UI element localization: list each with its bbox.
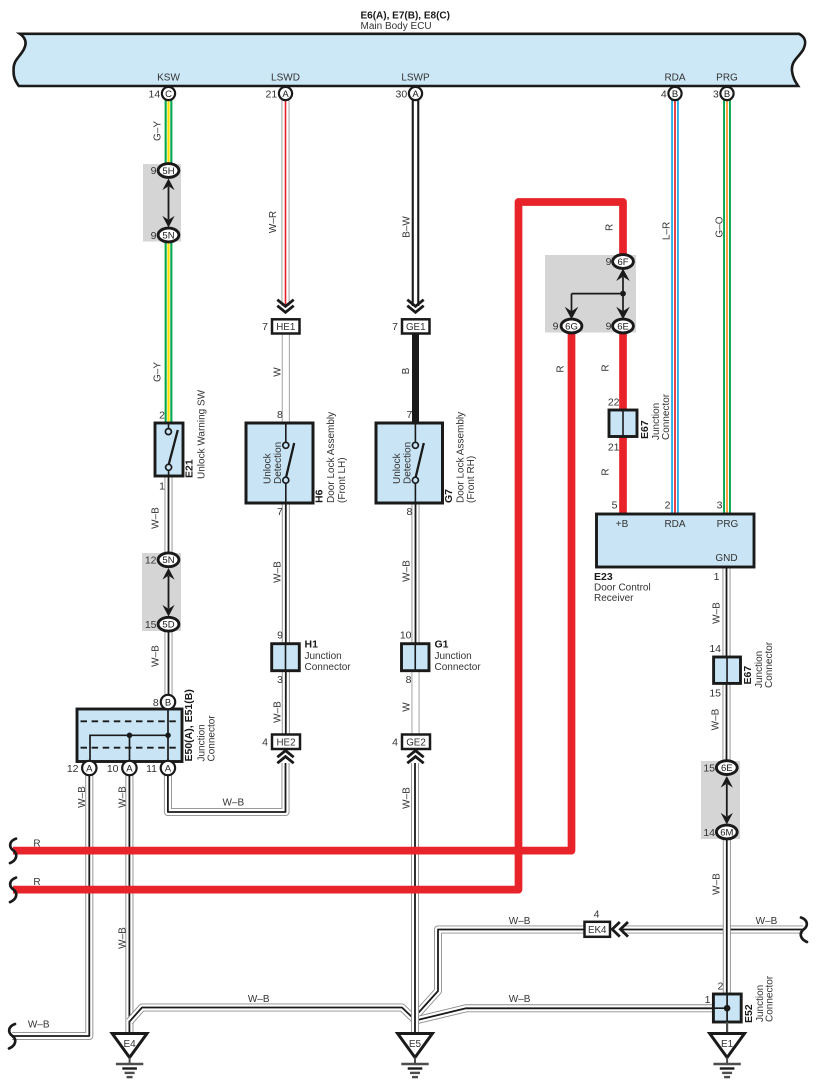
svg-text:W–B: W–B <box>150 645 161 667</box>
svg-text:7: 7 <box>392 321 398 333</box>
svg-text:L–R: L–R <box>662 222 673 240</box>
wire W-B from connector 6M to junction E52 <box>723 838 731 995</box>
svg-text:GND: GND <box>715 553 737 564</box>
internal wiring between 6F, 6G and 6E <box>572 277 624 312</box>
door lock assembly G7 (front RH) with unlock detection switch <box>376 423 443 503</box>
svg-text:5: 5 <box>612 500 618 512</box>
svg-text:A: A <box>282 89 289 100</box>
wire W-B from E50 pin 11 to connector HE2 <box>168 763 286 812</box>
wire from E52 to ground E1 <box>726 1022 728 1034</box>
svg-text:E23: E23 <box>594 571 613 583</box>
svg-text:4: 4 <box>661 88 667 100</box>
pin B of RDA <box>668 87 681 100</box>
svg-text:PRG: PRG <box>717 519 739 530</box>
wire W-B from H6 to junction H1 <box>282 503 290 644</box>
svg-text:3: 3 <box>277 674 283 686</box>
svg-text:1: 1 <box>159 481 165 493</box>
pin A of LSWD <box>279 87 292 100</box>
svg-text:W–B: W–B <box>712 873 723 895</box>
svg-text:Door Lock Assembly: Door Lock Assembly <box>326 412 337 503</box>
svg-text:G1: G1 <box>435 639 449 651</box>
wire G-Y from KSW pin C to connector 5H <box>165 100 173 165</box>
svg-text:3: 3 <box>717 500 723 512</box>
junction dot between 6F and 6E <box>620 291 626 297</box>
svg-text:Detection: Detection <box>273 442 284 484</box>
svg-text:9: 9 <box>151 165 157 177</box>
svg-text:Connector: Connector <box>435 662 482 673</box>
svg-text:W–B: W–B <box>711 708 722 730</box>
pin A11 of E50 <box>161 761 175 775</box>
svg-text:G–O: G–O <box>715 216 726 237</box>
svg-text:E5: E5 <box>409 1039 422 1050</box>
svg-text:E6(A), E7(B), E8(C): E6(A), E7(B), E8(C) <box>361 11 450 22</box>
gray connector box 6E/6M <box>701 761 740 839</box>
svg-text:1: 1 <box>714 571 720 583</box>
svg-text:E67: E67 <box>639 420 651 439</box>
pin A12 of E50 <box>82 761 96 775</box>
break mark red wire upper <box>10 839 16 864</box>
svg-text:W–B: W–B <box>150 507 161 529</box>
junction connector G1 <box>402 644 430 671</box>
svg-text:W–B: W–B <box>509 916 531 927</box>
junction connector E52 <box>713 994 741 1022</box>
wire W-B from EK4 chevrons to right break <box>622 926 804 934</box>
svg-text:Unlock Warning SW: Unlock Warning SW <box>197 389 208 479</box>
svg-text:21: 21 <box>266 88 278 100</box>
connector arrows into GE1 <box>407 300 423 313</box>
svg-text:Connector: Connector <box>764 641 775 688</box>
svg-text:8: 8 <box>277 409 283 421</box>
gray connector box 6F/6G/6E <box>545 255 636 333</box>
svg-text:Connector: Connector <box>207 715 218 762</box>
svg-text:H1: H1 <box>305 639 319 651</box>
svg-text:Door Control: Door Control <box>594 583 651 594</box>
svg-text:W–B: W–B <box>401 560 412 582</box>
break mark W-B wire bottom left <box>9 1024 15 1049</box>
svg-text:9: 9 <box>606 321 612 333</box>
Main Body ECU band E6/E7/E8 <box>14 34 806 86</box>
connector arrows into HE2 <box>277 751 293 764</box>
svg-text:Junction: Junction <box>305 651 342 662</box>
svg-text:2: 2 <box>717 980 723 992</box>
connector 6M <box>716 825 737 839</box>
svg-text:6M: 6M <box>720 827 733 838</box>
door control receiver E23 <box>597 514 755 567</box>
svg-text:G7: G7 <box>443 489 455 503</box>
connector 6E <box>613 319 634 333</box>
pin B of PRG <box>720 87 733 100</box>
svg-text:4: 4 <box>392 736 398 748</box>
svg-text:6E: 6E <box>721 763 733 774</box>
svg-text:14: 14 <box>709 643 721 655</box>
svg-text:Door Lock Assembly: Door Lock Assembly <box>455 412 466 503</box>
svg-text:G–Y: G–Y <box>152 362 163 382</box>
svg-text:W: W <box>401 702 412 712</box>
svg-text:12: 12 <box>67 763 79 775</box>
svg-text:11: 11 <box>146 763 157 775</box>
connector 5N top <box>158 228 179 242</box>
svg-text:10: 10 <box>107 763 119 775</box>
svg-text:B: B <box>165 697 171 708</box>
svg-text:2: 2 <box>665 500 671 512</box>
wire W-B from connector 5D to junction E50 pin 8 <box>165 630 173 696</box>
svg-text:15: 15 <box>145 619 157 631</box>
svg-text:W–B: W–B <box>509 994 531 1005</box>
svg-text:9: 9 <box>277 629 283 641</box>
svg-text:A: A <box>86 763 93 774</box>
svg-text:4: 4 <box>262 736 268 748</box>
arrow into 6E <box>616 307 630 319</box>
svg-text:E1: E1 <box>721 1039 734 1050</box>
svg-text:W–B: W–B <box>248 994 270 1005</box>
svg-text:7: 7 <box>262 321 268 333</box>
arrow into 6F <box>616 269 630 281</box>
wire W-B from GE2 to ground E5 <box>411 763 419 1034</box>
connector 5N lower <box>158 553 179 567</box>
svg-text:GE2: GE2 <box>406 737 426 748</box>
svg-text:Receiver: Receiver <box>594 593 634 604</box>
svg-text:Connector: Connector <box>765 975 776 1022</box>
gray connector box 5N/5D <box>142 553 181 631</box>
svg-text:+B: +B <box>616 519 629 530</box>
svg-text:R: R <box>556 365 567 372</box>
svg-text:12: 12 <box>145 555 157 567</box>
double arrow between 6E and 6M <box>721 776 733 825</box>
door lock assembly H6 (front LH) with unlock detection switch <box>246 423 313 503</box>
svg-text:LSWP: LSWP <box>401 73 430 84</box>
wire R from connector 6E to E23 +B via junction E67 <box>619 332 627 514</box>
svg-text:W–B: W–B <box>712 602 723 624</box>
svg-text:W–B: W–B <box>118 786 129 808</box>
svg-text:7: 7 <box>407 409 413 421</box>
junction connector E50(A),E51(B) <box>77 709 182 762</box>
wire W-B from H1 to connector HE2 <box>282 671 290 735</box>
pin A of LSWP <box>409 87 422 100</box>
svg-text:HE1: HE1 <box>276 322 295 333</box>
wire W-B from EK4 branch corner to E5 <box>416 930 585 1017</box>
svg-text:6G: 6G <box>565 321 578 332</box>
svg-text:3: 3 <box>713 88 719 100</box>
svg-text:Main Body ECU: Main Body ECU <box>361 21 432 32</box>
svg-text:W–B: W–B <box>273 561 284 583</box>
connector 6E lower <box>716 761 737 775</box>
svg-text:Connector: Connector <box>305 662 352 673</box>
svg-text:KSW: KSW <box>157 73 180 84</box>
svg-text:PRG: PRG <box>716 73 738 84</box>
svg-text:RDA: RDA <box>664 519 685 530</box>
wire W-B from E50 pin 10 to ground E4 <box>125 775 133 1034</box>
pin A10 of E50 <box>122 761 136 775</box>
svg-text:B–W: B–W <box>402 216 413 238</box>
wire L-R from RDA pin B to receiver E23 <box>671 100 679 514</box>
wire W from G1 to connector GE2 <box>412 671 420 735</box>
svg-text:15: 15 <box>703 763 715 775</box>
svg-text:7: 7 <box>277 506 283 518</box>
svg-text:15: 15 <box>709 687 721 699</box>
connector GE2 <box>402 735 430 750</box>
connector arrows into EK4 <box>612 922 628 937</box>
svg-text:9: 9 <box>151 230 157 242</box>
svg-text:W: W <box>273 367 284 377</box>
wire W-B from E50 pin 12 to left break <box>12 775 89 1036</box>
svg-text:W–B: W–B <box>273 701 284 723</box>
svg-text:C: C <box>165 89 172 100</box>
svg-text:HE2: HE2 <box>276 737 295 748</box>
svg-text:22: 22 <box>608 396 620 408</box>
connector HE1 <box>272 319 300 333</box>
wire W-B from E67 to connector 6E <box>723 683 731 762</box>
junction connector E67 lower <box>714 657 741 683</box>
connector GE1 <box>402 319 430 333</box>
wire W-B from G7 to junction G1 <box>412 503 420 644</box>
svg-text:E4: E4 <box>123 1039 136 1050</box>
wire R from connector 6G to left break <box>13 332 572 851</box>
ground E1 <box>710 1034 745 1078</box>
svg-text:A: A <box>412 89 419 100</box>
svg-text:EK4: EK4 <box>588 925 607 936</box>
svg-text:(Front LH): (Front LH) <box>337 457 348 503</box>
unlock warning switch E21 <box>155 423 183 476</box>
svg-text:4: 4 <box>594 909 600 921</box>
svg-text:LSWD: LSWD <box>271 73 300 84</box>
gray connector box 5H/5N <box>143 164 181 242</box>
svg-text:10: 10 <box>400 629 412 641</box>
svg-text:9: 9 <box>553 321 559 333</box>
svg-text:RDA: RDA <box>664 73 685 84</box>
wire G-Y from connector 5N to switch E21 <box>165 240 173 423</box>
svg-text:8: 8 <box>153 697 159 709</box>
svg-text:W–R: W–R <box>268 211 279 233</box>
svg-text:2: 2 <box>159 410 165 422</box>
svg-text:E50(A), E51(B): E50(A), E51(B) <box>183 689 195 761</box>
svg-text:A: A <box>165 763 172 774</box>
pin C of KSW <box>162 87 175 100</box>
svg-text:21: 21 <box>608 441 620 453</box>
svg-text:5H: 5H <box>162 166 174 177</box>
connector arrows into GE2 <box>407 751 423 764</box>
wire W-B bus E4 to E5 <box>130 1008 415 1022</box>
svg-text:6F: 6F <box>617 257 628 268</box>
wire W-B bus E5 to E52 pin 1 <box>418 1008 714 1020</box>
connector 5H <box>158 164 179 178</box>
wire R from left break through U-loop to connector 6F <box>13 202 623 890</box>
wire G-O from PRG pin B to receiver E23 <box>723 100 731 514</box>
svg-text:Detection: Detection <box>402 442 413 484</box>
svg-text:14: 14 <box>703 827 715 839</box>
svg-text:H6: H6 <box>314 489 326 503</box>
svg-text:9: 9 <box>606 256 612 268</box>
connector 6G <box>561 319 582 333</box>
svg-text:6E: 6E <box>617 321 629 332</box>
svg-text:R: R <box>33 877 40 888</box>
svg-text:W–B: W–B <box>28 1020 50 1031</box>
svg-text:5D: 5D <box>162 620 174 631</box>
svg-text:R: R <box>605 224 616 231</box>
wire W-B from E23 GND to junction E67 <box>723 567 731 658</box>
double arrow between 5N and 5D <box>162 568 174 617</box>
svg-text:(Front RH): (Front RH) <box>466 456 477 503</box>
connector arrows into HE1 <box>277 300 293 313</box>
wire B from GE1 to door lock G7 <box>412 333 419 423</box>
double arrow between 5H and 5N <box>162 179 174 228</box>
svg-text:R: R <box>601 468 612 475</box>
svg-text:14: 14 <box>149 88 161 100</box>
svg-text:B: B <box>724 89 730 100</box>
svg-text:1: 1 <box>705 994 711 1006</box>
ground E5 <box>398 1034 433 1078</box>
svg-text:Connector: Connector <box>661 393 672 440</box>
connector HE2 <box>272 735 300 750</box>
svg-text:5N: 5N <box>162 555 174 566</box>
ground E4 <box>112 1034 147 1078</box>
svg-text:R: R <box>33 838 40 849</box>
svg-text:B: B <box>672 89 678 100</box>
wire B-W from LSWP pin A to connector GE1 <box>412 100 420 306</box>
svg-text:W–B: W–B <box>756 916 778 927</box>
break mark W-B wire right (EK4) <box>801 918 807 943</box>
break mark red wire lower <box>10 878 16 903</box>
svg-text:W–B: W–B <box>117 927 128 949</box>
wire W from HE1 to door lock H6 <box>282 334 290 424</box>
svg-text:8: 8 <box>406 674 412 686</box>
wire W-B from E21 to connector 5N <box>165 476 173 554</box>
connector EK4 <box>585 922 611 937</box>
svg-text:5N: 5N <box>162 230 174 241</box>
svg-text:B: B <box>401 367 412 374</box>
svg-text:W–B: W–B <box>402 787 413 809</box>
svg-text:E67: E67 <box>742 666 754 685</box>
svg-text:E21: E21 <box>184 459 196 478</box>
svg-text:A: A <box>126 763 133 774</box>
svg-text:G–Y: G–Y <box>152 121 163 141</box>
svg-text:E52: E52 <box>743 1004 755 1023</box>
pin B of E50 <box>161 695 175 709</box>
svg-text:30: 30 <box>396 88 408 100</box>
svg-text:R: R <box>601 364 612 371</box>
junction connector E67 upper <box>609 410 637 437</box>
svg-text:8: 8 <box>407 506 413 518</box>
svg-text:W–B: W–B <box>222 798 244 809</box>
connector 5D <box>158 617 179 631</box>
svg-text:Junction: Junction <box>435 651 472 662</box>
wire W-R from LSWD pin A to connector HE1 <box>282 100 290 306</box>
svg-text:W–B: W–B <box>77 786 88 808</box>
junction connector H1 <box>272 644 300 671</box>
arrow into 6G <box>565 307 579 319</box>
connector 6F <box>613 255 634 269</box>
svg-text:GE1: GE1 <box>406 322 426 333</box>
